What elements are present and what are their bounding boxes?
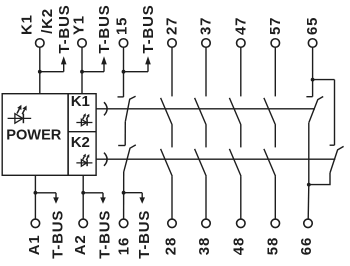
wire A1 from POWER box [34, 175, 36, 219]
terminal 15 circle [119, 39, 128, 48]
svg-text:28: 28 [163, 237, 180, 255]
wire 66 down [307, 185, 310, 220]
svg-text:16: 16 [116, 237, 133, 255]
label Y1 [71, 15, 88, 35]
terminal 28 circle [168, 219, 177, 228]
wire 57 down [274, 47, 276, 96]
label 58 [264, 237, 281, 255]
wire between 15-16 contacts [124, 122, 126, 146]
junction on wire 15 [122, 70, 126, 74]
label 66 [298, 237, 315, 255]
label T-BUS top 2 [96, 5, 113, 54]
svg-text:T-BUS: T-BUS [50, 210, 67, 259]
svg-text:37: 37 [198, 17, 215, 35]
POWER LED [8, 105, 32, 123]
terminal 48 circle [237, 219, 246, 228]
junction on Y1 wire [80, 70, 84, 74]
label T-BUS bottom 2 [97, 210, 114, 259]
T-BUS arrow up 3 [145, 56, 151, 71]
NO contact K2 37-38 blade [195, 149, 207, 176]
terminal 27 circle [168, 39, 177, 48]
label /K2 [39, 8, 56, 34]
NO contact K1 27-28 blade [161, 98, 173, 125]
junction on A1 wire [34, 191, 38, 195]
terminal Y1 circle [78, 39, 87, 48]
POWER label [6, 128, 62, 144]
svg-text:57: 57 [267, 17, 284, 35]
label 57 [267, 17, 284, 35]
junction on wire 16 [122, 191, 126, 195]
svg-text:Y1: Y1 [71, 15, 88, 35]
label 27 [164, 17, 181, 35]
terminal 37 circle [202, 39, 211, 48]
label 38 [196, 237, 213, 255]
POWER supply box [2, 94, 68, 176]
label 37 [198, 17, 215, 35]
K2 actuator arc [104, 153, 107, 166]
label K1 [19, 14, 36, 35]
K1 actuator arc [104, 102, 107, 115]
K2 coil label [71, 134, 90, 151]
wire between 37-38 contacts [205, 125, 207, 147]
K1 LED [76, 113, 92, 126]
svg-text:K1: K1 [71, 93, 90, 110]
terminal 65 circle [308, 39, 317, 48]
label 28 [163, 237, 180, 255]
svg-text:47: 47 [232, 17, 249, 35]
label T-BUS top 1 [56, 5, 73, 54]
label 48 [230, 237, 247, 255]
NC contact K2 65-66 blade [330, 146, 344, 173]
svg-text:38: 38 [196, 237, 213, 255]
NC contact K1 65-66 blade [309, 97, 323, 123]
svg-text:27: 27 [164, 17, 181, 35]
label 15 [114, 17, 131, 35]
NO contact K2 57-58 blade [264, 149, 276, 176]
wire 38 down [205, 176, 207, 219]
wire 47 down [240, 47, 242, 96]
svg-text:K1: K1 [19, 14, 36, 35]
T-BUS arrow up 2 [101, 56, 107, 71]
terminal 47 circle [237, 39, 246, 48]
svg-text:T-BUS: T-BUS [136, 210, 153, 259]
T-BUS arrow down 2 [100, 193, 106, 204]
wire 65 down [312, 47, 314, 97]
wire to T-BUS arrow 5 [83, 192, 103, 194]
wire 58 down [274, 176, 276, 219]
NO contact K1 47-48 blade [229, 98, 241, 125]
label T-BUS bottom 3 [136, 210, 153, 259]
K1 coil label [71, 93, 90, 110]
junction on A2 wire [81, 191, 85, 195]
NO contact K2 47-48 blade [229, 149, 241, 176]
K2 LED [76, 154, 92, 167]
label 47 [232, 17, 249, 35]
svg-text:POWER: POWER [6, 128, 62, 144]
svg-text:T-BUS: T-BUS [97, 210, 114, 259]
wire between 47-48 contacts [240, 125, 242, 147]
wire Y1 to relay box [81, 47, 83, 94]
NC contact K1 65-66 seat [306, 96, 312, 98]
wire right branch to junction [309, 173, 330, 185]
terminal 16 circle [119, 219, 128, 228]
K1 linkage line [96, 108, 315, 110]
wire to T-BUS arrow 3 [124, 71, 149, 73]
wire A2 from relay box [82, 175, 84, 219]
NO contact K1 57-58 blade [264, 98, 276, 125]
terminal 38 circle [202, 219, 211, 228]
svg-text:58: 58 [264, 237, 281, 255]
svg-text:T-BUS: T-BUS [96, 5, 113, 54]
wire to T-BUS arrow 1 [40, 71, 64, 73]
svg-text:K2: K2 [71, 134, 90, 151]
wire to T-BUS arrow 4 [35, 192, 56, 194]
wire 65-66 left branch down [308, 123, 310, 185]
terminal K1//K2 circle [36, 39, 45, 48]
wire 65 branch right [313, 79, 335, 81]
label A2 [72, 234, 89, 255]
relay box K1/K2 [68, 94, 96, 176]
terminal 66 circle [304, 219, 313, 228]
svg-text:66: 66 [298, 237, 315, 255]
NO contact K1 37-38 blade [195, 98, 207, 125]
NC contact K1 15-16 seat [118, 96, 124, 98]
wire 16 down [123, 172, 125, 219]
wire 37 down [205, 47, 207, 96]
wire between 27-28 contacts [171, 125, 173, 147]
T-BUS arrow up 1 [61, 56, 67, 71]
wire right branch down [334, 80, 336, 146]
junction above 66 [307, 183, 311, 187]
terminal A2 circle [79, 219, 88, 228]
T-BUS arrow down 1 [53, 193, 59, 204]
NO contact K2 27-28 blade [161, 149, 173, 176]
svg-text:15: 15 [114, 17, 131, 35]
junction on K1 wire [38, 70, 42, 74]
label T-BUS top 3 [140, 5, 157, 54]
wire 28 down [171, 176, 173, 219]
NC contact K2 65-66 seat [330, 144, 335, 146]
K2 linkage line [96, 158, 335, 160]
svg-text:65: 65 [304, 17, 321, 35]
terminal 58 circle [271, 219, 280, 228]
NC contact K2 15-16 blade [124, 145, 136, 172]
junction on wire 65 [311, 78, 315, 82]
svg-text:48: 48 [230, 237, 247, 255]
wire 27 down [171, 47, 173, 96]
NC contact K2 15-16 seat [118, 145, 125, 147]
wire K1//K2 to POWER box [39, 47, 41, 94]
svg-text:A2: A2 [72, 234, 89, 255]
NC contact K1 15-16 blade [125, 96, 135, 121]
label A1 [26, 234, 43, 255]
wire between 57-58 contacts [274, 125, 276, 147]
terminal A1 circle [31, 219, 40, 228]
svg-text:/K2: /K2 [39, 8, 56, 34]
wire 15 down [123, 47, 125, 97]
label 16 [116, 237, 133, 255]
wire 48 down [240, 176, 242, 219]
svg-text:T-BUS: T-BUS [140, 5, 157, 54]
svg-text:A1: A1 [26, 234, 43, 255]
wire to T-BUS arrow 6 [124, 192, 143, 194]
T-BUS arrow down 3 [139, 193, 145, 204]
wire to T-BUS arrow 2 [82, 71, 104, 73]
label T-BUS bottom 1 [50, 210, 67, 259]
terminal 57 circle [271, 39, 280, 48]
label 65 [304, 17, 321, 35]
